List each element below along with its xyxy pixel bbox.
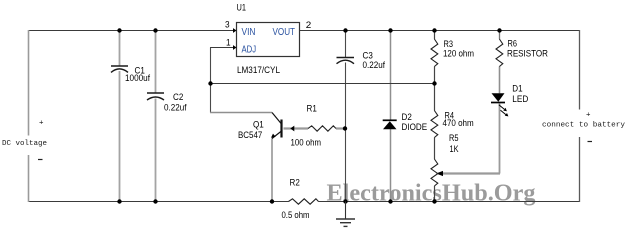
svg-text:DC voltage: DC voltage — [2, 140, 47, 148]
Q1 emitter arrowhead — [271, 134, 276, 138]
regulator U1 box — [237, 23, 300, 57]
svg-text:C2: C2 — [173, 92, 183, 103]
node junction dots top bus — [117, 28, 121, 32]
wire R3 bottom stub — [434, 67, 436, 84]
wire D2 branch upper — [390, 31, 392, 121]
svg-text:1000uf: 1000uf — [125, 73, 150, 84]
D1 emission arrows — [499, 105, 506, 115]
svg-text:3: 3 — [225, 20, 230, 30]
wire R5 bottom stub — [434, 186, 436, 202]
wiper arrowhead — [436, 171, 443, 176]
node DC voltage minus — [38, 159, 43, 161]
wire C3 branch lower — [345, 63, 347, 202]
U1 pin 3 arrowhead — [233, 28, 237, 33]
svg-text:100 ohm: 100 ohm — [291, 138, 322, 149]
wire ADJ feedback horizontal — [210, 83, 435, 85]
capacitor C2 — [147, 93, 164, 100]
diode D2 (pointing up, cathode bar on top) — [383, 119, 397, 121]
resistor R1 — [308, 126, 336, 131]
R1 base arrowhead — [290, 126, 294, 132]
wire C3 branch upper — [345, 31, 347, 58]
wire right rail upper — [579, 30, 581, 110]
wire bottom bus right segment — [319, 201, 581, 203]
wire emitter vertical — [271, 139, 273, 202]
svg-text:U1: U1 — [237, 3, 247, 14]
resistor R6 — [496, 39, 503, 67]
svg-text:DIODE: DIODE — [402, 122, 428, 133]
ground — [336, 202, 355, 227]
node battery minus — [588, 141, 593, 143]
node junction dots bottom bus — [117, 199, 121, 203]
svg-text:BC547: BC547 — [238, 130, 262, 141]
svg-text:R1: R1 — [307, 104, 317, 115]
transistor Q1 — [272, 113, 282, 139]
svg-text:2: 2 — [306, 20, 312, 30]
svg-text:VOUT: VOUT — [273, 27, 296, 38]
svg-text:connect to battery: connect to battery — [542, 122, 626, 130]
svg-text:+: + — [39, 120, 44, 128]
svg-text:RESISTOR: RESISTOR — [507, 49, 548, 60]
wire left rail upper — [28, 30, 30, 136]
wire C1 branch upper — [119, 31, 121, 66]
wire R1 right lead — [336, 127, 345, 129]
svg-text:0.22uf: 0.22uf — [363, 60, 386, 71]
svg-text:1: 1 — [226, 38, 231, 48]
svg-text:LED: LED — [512, 94, 528, 105]
svg-text:VIN: VIN — [242, 27, 256, 38]
resistor R3 — [431, 39, 438, 67]
wire D2 branch lower — [390, 129, 392, 202]
svg-text:0.22uf: 0.22uf — [164, 103, 187, 114]
wire ADJ branch vertical — [210, 48, 212, 113]
svg-text:470 ohm: 470 ohm — [443, 118, 474, 129]
wire C2 branch lower — [155, 99, 157, 202]
potentiometer R5 — [431, 159, 438, 186]
wire C1 branch lower — [119, 71, 121, 202]
wire LED to wiper vertical — [499, 104, 501, 174]
U1 pin 1 arrowhead — [233, 45, 237, 50]
wire R6 top stub — [499, 31, 501, 40]
wire bottom bus left segment — [28, 201, 289, 203]
wire left rail lower — [28, 155, 30, 202]
wire R3 top stub — [434, 31, 436, 40]
svg-text:D1: D1 — [512, 84, 522, 95]
svg-text:0.5 ohm: 0.5 ohm — [282, 210, 310, 221]
resistor R2 — [289, 199, 319, 204]
capacitor C3 — [337, 58, 355, 64]
wire collector horizontal — [210, 112, 272, 114]
svg-text:120 ohm: 120 ohm — [443, 49, 474, 60]
wire R4-R5 link — [434, 138, 436, 160]
wire top bus right segment — [299, 30, 580, 32]
svg-text:ADJ: ADJ — [242, 45, 257, 56]
LED D1 — [492, 93, 505, 102]
svg-text:+: + — [586, 112, 591, 120]
wire top bus left segment — [28, 30, 233, 32]
wire R1 left lead to Q1 base — [284, 127, 309, 129]
capacitor C1 — [111, 66, 128, 72]
wire R6 to LED — [499, 67, 501, 94]
svg-text:1K: 1K — [450, 144, 460, 155]
wire wiper horizontal — [443, 172, 500, 174]
wire right rail lower — [579, 137, 581, 202]
svg-text:R2: R2 — [290, 178, 300, 189]
svg-text:R5: R5 — [449, 133, 459, 144]
wire C2 branch upper — [155, 31, 157, 93]
node junction dots ADJ line and R1 — [208, 81, 212, 85]
wire R4 top stub — [434, 84, 436, 111]
wire ADJ pin stub — [210, 47, 233, 49]
svg-text:Q1: Q1 — [253, 120, 264, 131]
svg-text:LM317/CYL: LM317/CYL — [237, 65, 280, 76]
svg-text:ElectronicsHub.Org: ElectronicsHub.Org — [327, 180, 537, 207]
resistor R4 — [431, 111, 438, 138]
